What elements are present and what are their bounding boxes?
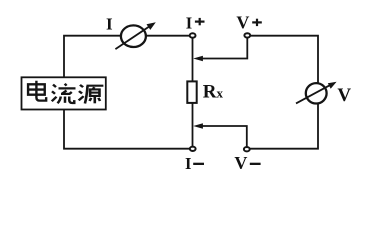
char 电 bbox=[28, 81, 46, 101]
svg-text:I: I bbox=[185, 154, 191, 173]
char 流 bbox=[52, 84, 76, 104]
voltmeter V bbox=[296, 82, 337, 104]
node V- bbox=[244, 147, 250, 151]
wire sense lead V- to Rx bottom (with arrow) bbox=[199, 126, 247, 146]
svg-text:I: I bbox=[106, 14, 113, 33]
wire left vertical from box bottom to bottom rail bbox=[64, 111, 190, 149]
svg-text:Rx: Rx bbox=[203, 82, 224, 103]
svg-text:V: V bbox=[234, 153, 247, 173]
wire node V+ to right vertical down to voltmeter bbox=[250, 36, 318, 82]
text 电流源 (drawn as strokes) bbox=[28, 81, 103, 104]
node I- bbox=[190, 147, 196, 151]
node V+ bbox=[244, 33, 250, 37]
wire ammeter to node I+ bbox=[147, 35, 190, 37]
wire resistor bottom to node I- bbox=[192, 104, 194, 147]
wire voltmeter bottom to node V- bbox=[250, 105, 318, 149]
node I+ bbox=[190, 33, 196, 37]
arrowhead sense lead top bbox=[193, 56, 203, 62]
wire top-left from current source to ammeter bbox=[64, 36, 121, 77]
svg-text:V: V bbox=[337, 85, 351, 106]
wire vertical branch I+ to resistor top bbox=[192, 38, 194, 81]
char 源 bbox=[79, 85, 104, 104]
ammeter I bbox=[115, 22, 155, 49]
arrowhead sense lead bottom bbox=[193, 123, 203, 129]
svg-text:V: V bbox=[236, 12, 249, 32]
resistor Rx bbox=[187, 81, 196, 103]
wire sense lead V+ to Rx top (with arrow) bbox=[199, 38, 247, 58]
svg-text:I: I bbox=[186, 13, 192, 32]
current source box bbox=[22, 77, 106, 109]
